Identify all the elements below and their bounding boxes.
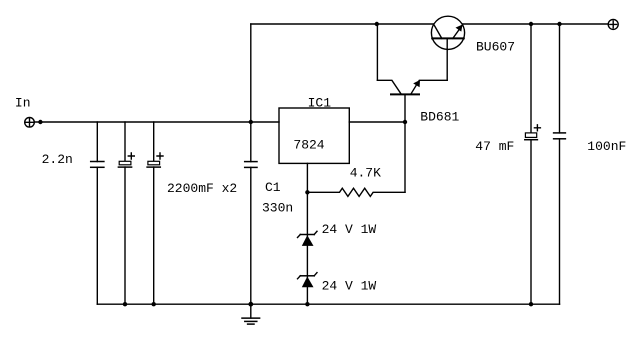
capacitor C1 330n — [245, 122, 257, 304]
svg-text:4.7K: 4.7K — [350, 166, 381, 181]
node at input of IC — [249, 120, 253, 124]
svg-text:7824: 7824 — [293, 137, 324, 152]
node BD681 collector to rail — [375, 22, 379, 26]
capacitor electrolytic 2200mF B — [147, 122, 163, 304]
capacitor electrolytic 47mF — [525, 24, 541, 304]
svg-text:100nF: 100nF — [587, 139, 626, 154]
node 47mF top junction — [529, 22, 533, 26]
node bottom 2200mF B — [152, 302, 156, 306]
transistor Q2 BD681 — [377, 80, 447, 94]
node bottom 2200mF A — [123, 302, 127, 306]
ground — [242, 304, 260, 324]
wire IC output — [349, 121, 405, 123]
wire top rail right — [462, 23, 608, 25]
capacitor electrolytic 2200mF A — [118, 122, 134, 304]
zener diode D2 24V — [298, 273, 318, 288]
wire BD681 collector to top rail — [376, 24, 378, 80]
svg-text:330n: 330n — [262, 201, 293, 216]
node 100nF top junction — [557, 22, 561, 26]
wire input horizontal — [34, 121, 279, 123]
wire top rail left — [251, 23, 434, 25]
wire vertical to top rail — [250, 24, 252, 122]
node resistor junction — [305, 190, 309, 194]
node bottom zener junction — [305, 302, 309, 306]
node bottom ground junction — [248, 302, 253, 307]
svg-text:BU607: BU607 — [476, 40, 515, 55]
svg-text:2200mF x2: 2200mF x2 — [167, 181, 237, 196]
svg-text:BD681: BD681 — [420, 110, 459, 125]
zener diode D1 24V — [298, 231, 318, 246]
resistor R1 4.7K — [307, 188, 405, 196]
capacitor 100nF — [554, 24, 566, 304]
svg-text:C1: C1 — [265, 180, 281, 195]
regulator IC U1 IC1 7824 box — [279, 108, 349, 163]
svg-text:47 mF: 47 mF — [475, 139, 514, 154]
svg-text:In: In — [15, 96, 31, 111]
svg-text:IC1: IC1 — [308, 96, 332, 111]
svg-text:24 V 1W: 24 V 1W — [322, 278, 377, 293]
wire zener chain vertical — [306, 192, 308, 304]
svg-text:2.2n: 2.2n — [42, 152, 73, 167]
node IC output junction — [403, 120, 407, 124]
wire BU607 base lead — [446, 38, 448, 80]
wire resistor to node vertical — [404, 94, 406, 192]
node input junction — [38, 120, 42, 124]
wire IC ground lead — [306, 163, 308, 192]
input terminal J1 — [25, 118, 35, 128]
wire bottom rail — [97, 303, 559, 305]
transistor Q1 BU607 — [431, 16, 464, 49]
svg-text:24 V 1W: 24 V 1W — [322, 222, 377, 237]
node bottom 47mF junction — [529, 302, 533, 306]
capacitor 2.2n — [91, 122, 104, 304]
output terminal J2 — [608, 19, 618, 29]
